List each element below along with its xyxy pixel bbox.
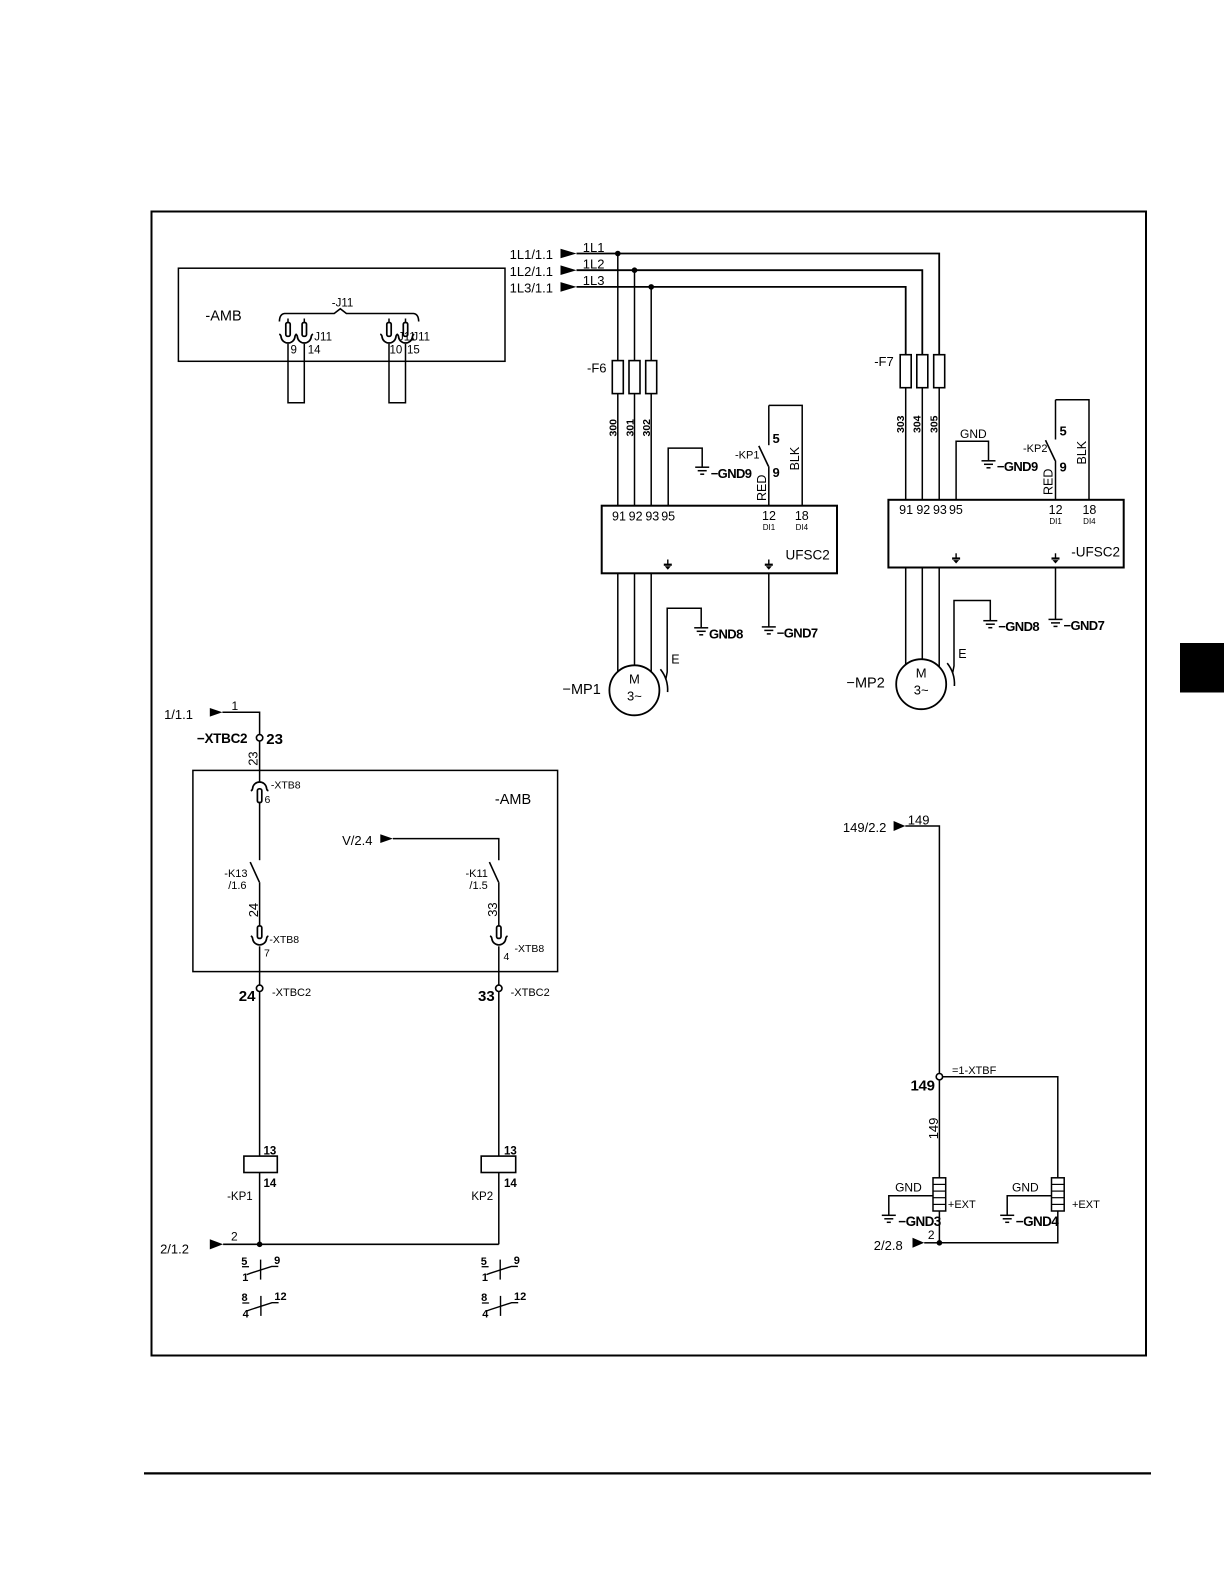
svg-text:E: E [671,653,679,667]
svg-text:-XTB8: -XTB8 [269,934,299,946]
svg-text:-KP1: -KP1 [227,1191,253,1203]
svg-text:13: 13 [264,1146,277,1158]
svg-text:RED: RED [755,475,769,501]
ground -GND7 (right) [1049,618,1063,620]
terminal -XTB8 6 [251,782,269,791]
wire pin95 to GND9 (U1) [668,448,702,506]
svg-text:M: M [629,672,640,687]
wire V to MP2 [921,568,923,662]
wire 149 to GND3 block [938,1080,940,1178]
fuse F7 pole 1 [900,355,911,388]
page marker tab [1180,643,1224,693]
motor MP1 [609,665,659,715]
terminal block +EXT (GND3) [933,1178,946,1211]
wire 301 [634,394,636,506]
contact -KP1 [768,405,770,445]
coil KP2 [481,1156,516,1172]
svg-text:GND: GND [1012,1181,1039,1195]
svg-text:5: 5 [1060,423,1067,438]
svg-text:303: 303 [895,415,907,433]
svg-text:4: 4 [504,951,510,963]
svg-text:J11: J11 [412,332,430,344]
svg-text:6: 6 [265,794,271,806]
svg-text:-K13: -K13 [224,868,247,880]
svg-text:−GND9: −GND9 [711,466,752,481]
enclosure box -AMB (top) [178,268,505,361]
wire U to MP1 [617,573,619,673]
svg-text:-K11: -K11 [466,868,488,880]
svg-text:305: 305 [928,415,940,433]
ground -GND9 (right) [982,460,996,462]
wire pin95 to GND9 (U2) [956,441,988,500]
internal earth arrow (U2 left) [955,553,957,558]
svg-text:304: 304 [912,415,924,433]
svg-text:12: 12 [1049,503,1063,517]
wire 1L2 [577,270,923,355]
svg-text:-UFSC2: -UFSC2 [1071,545,1120,560]
wire GND3 block to rail [938,1211,940,1243]
svg-text:7: 7 [264,948,270,960]
terminal -XTB8 7 [257,926,261,939]
svg-text:J11: J11 [314,332,332,344]
svg-text:1L3: 1L3 [583,273,605,288]
svg-text:1L2/1.1: 1L2/1.1 [510,264,553,279]
wire 23 [259,741,261,782]
wire 1L1 [577,254,940,355]
svg-text:18: 18 [795,509,809,523]
wire 1L3 to F6 [650,287,652,361]
svg-text:1/1.1: 1/1.1 [164,707,193,722]
node rail2-KP1 [257,1242,263,1248]
ground GND8 (left) [694,627,708,629]
wire 33 to coil KP2 [498,992,500,1157]
svg-text:−MP2: −MP2 [847,676,885,692]
node 1L2-301 [632,267,638,273]
svg-text:+EXT: +EXT [948,1199,976,1211]
svg-text:DI4: DI4 [796,523,809,532]
wire XTB8-4 to XTBC2-33 [498,946,500,985]
svg-text:-XTB8: -XTB8 [271,780,301,792]
wire pin12 to GND7 (right) [1055,568,1057,620]
rail 2 (left) [223,1243,499,1245]
svg-text:/1.6: /1.6 [228,880,246,892]
svg-text:DI1: DI1 [763,523,776,532]
svg-text:-J11: -J11 [332,298,354,310]
svg-text:302: 302 [641,419,653,437]
svg-text:GND: GND [960,427,987,441]
rail 2 (right) [924,1242,939,1244]
svg-text:UFSC2: UFSC2 [786,548,830,563]
ground -GND4 [1000,1214,1014,1216]
svg-text:149: 149 [926,1118,941,1140]
svg-text:E: E [958,647,966,661]
svg-text:18: 18 [1082,503,1096,517]
wire E to GND8 (right) [953,601,991,673]
svg-text:23: 23 [246,751,261,765]
svg-text:-XTBC2: -XTBC2 [272,987,311,999]
svg-text:14: 14 [308,344,321,356]
footer rule line [144,1472,1151,1474]
svg-text:12: 12 [274,1291,286,1303]
svg-text:M: M [916,666,927,681]
ground -GND9 (left) [695,466,709,468]
svg-text:23: 23 [266,731,283,748]
wire V to K11 [393,839,499,861]
internal earth arrow (U1 right) [768,560,770,565]
connector J11 pin 10 [388,319,390,323]
svg-text:+EXT: +EXT [1072,1199,1100,1211]
earth arc MP2 [947,663,954,686]
svg-text:9: 9 [773,465,780,480]
svg-text:95: 95 [661,509,675,523]
terminal =1-XTBF 149 [936,1074,942,1080]
svg-text:2/1.2: 2/1.2 [160,1241,189,1256]
wire 300 [617,394,619,506]
wire pin12 to GND7 (left) [768,573,770,626]
drawing border frame [152,212,1147,1356]
ground -GND7 (left) [762,626,776,628]
wire W to MP1 [650,573,652,673]
svg-text:−GND7: −GND7 [1064,618,1105,633]
svg-text:−MP1: −MP1 [563,682,601,698]
svg-text:5: 5 [481,1256,487,1268]
wire 302 [650,394,652,506]
svg-text:12: 12 [514,1291,526,1303]
controller U1 box UFSC2 [602,506,837,574]
internal earth arrow (U2 right) [1055,553,1057,558]
enclosure box -AMB (middle) [193,770,558,971]
svg-text:12: 12 [762,509,776,523]
internal earth arrow (U1 left) [667,560,669,565]
contact -K11 [489,862,498,882]
svg-text:1L1/1.1: 1L1/1.1 [510,247,553,262]
svg-text:V/2.4: V/2.4 [342,833,372,848]
wire 1L2 to F6 [634,270,636,360]
fuse F6 pole 1 [612,361,623,394]
svg-text:−GND8: −GND8 [998,619,1039,634]
svg-text:2: 2 [928,1228,935,1242]
coil -KP1 [244,1156,277,1172]
controller U2 box -UFSC2 [888,500,1123,568]
motor MP2 [896,659,946,709]
svg-text:149: 149 [911,1077,935,1094]
wire coil KP2 to rail 2 [498,1173,500,1245]
svg-text:2/2.8: 2/2.8 [874,1238,903,1253]
svg-text:-XTBC2: -XTBC2 [511,987,550,999]
svg-text:−XTBC2: −XTBC2 [197,731,247,746]
wire GND3 stub [889,1196,933,1215]
wire 1L3 [577,287,906,355]
wire GND4 stub [1007,1196,1051,1215]
svg-text:GND8: GND8 [709,626,743,641]
wire KP1 top to BLK [769,405,802,505]
svg-text:24: 24 [246,903,261,917]
svg-text:RED: RED [1042,469,1056,495]
svg-text:-AMB: -AMB [495,792,531,808]
wire XTB8-6 to K13 [259,803,261,861]
wire V to MP1 [634,573,636,667]
wire KP2 top to BLK [1056,400,1090,500]
svg-text:3~: 3~ [627,689,642,704]
svg-text:DI1: DI1 [1049,517,1062,526]
wire U to MP2 [905,568,907,668]
svg-text:BLK: BLK [1075,440,1089,464]
fuse F6 pole 2 [629,361,640,394]
terminal -XTBC2 24 [256,985,262,991]
svg-text:1: 1 [232,699,239,713]
wire 149 feed [905,826,939,1074]
svg-text:91: 91 [899,503,913,517]
wire 33 (inside AMB) [498,882,500,926]
svg-text:8: 8 [481,1292,487,1304]
svg-text:9: 9 [514,1255,520,1267]
svg-text:=1-XTBF: =1-XTBF [952,1065,997,1077]
svg-text:91: 91 [612,509,626,523]
terminal -XTB8 4 [497,926,501,939]
svg-text:-AMB: -AMB [205,309,241,325]
svg-text:−GND4: −GND4 [1016,1214,1059,1229]
svg-text:15: 15 [407,344,420,356]
terminal block +EXT (GND4) [1052,1178,1065,1211]
svg-text:95: 95 [949,503,963,517]
wire loop J11 9-14 [288,344,304,403]
svg-text:1L3/1.1: 1L3/1.1 [510,280,553,295]
wire 1L1 to F6 [617,254,619,361]
svg-text:8: 8 [242,1292,248,1304]
wire 1 to XTBC2-23 [222,712,259,734]
terminal -XTBC2 33 [496,985,502,991]
svg-text:33: 33 [485,902,500,916]
wire RED KP2 to pin12 [1055,461,1057,500]
wire GND4 block to rail [939,1211,1057,1243]
svg-text:GND: GND [895,1181,922,1195]
svg-text:BLK: BLK [788,446,802,470]
svg-text:10: 10 [390,344,403,356]
fuse F7 pole 2 [917,355,928,388]
svg-text:DI4: DI4 [1083,517,1096,526]
svg-text:33: 33 [478,988,495,1005]
terminal -XTBC2 23 [256,735,262,741]
contact -K13 [250,862,259,882]
svg-text:149/2.2: 149/2.2 [843,820,886,835]
svg-text:−GND9: −GND9 [997,459,1038,474]
svg-text:-KP2: -KP2 [1023,443,1047,455]
svg-text:93: 93 [933,503,947,517]
node 1L1-300 [615,251,621,257]
svg-text:KP2: KP2 [471,1191,493,1203]
svg-text:−GND7: −GND7 [777,625,818,640]
wire 24 to coil KP1 [259,992,261,1157]
fuse F6 pole 3 [646,361,657,394]
svg-text:-XTB8: -XTB8 [515,943,545,955]
fuse F7 pole 3 [934,355,945,388]
svg-text:2: 2 [231,1230,238,1244]
svg-text:/1.5: /1.5 [469,880,487,892]
svg-text:-F7: -F7 [874,354,894,369]
connector J11 pin 15 [405,319,407,323]
wire 304 [921,388,923,500]
wire 303 [905,388,907,500]
wire XTBF to GND4 branch [943,1077,1058,1178]
wire coil KP1 to rail 2 [259,1173,261,1245]
svg-text:92: 92 [629,509,643,523]
wire W to MP2 [938,568,940,668]
svg-text:24: 24 [239,988,256,1005]
ground -GND3 [882,1214,896,1216]
connector J11 pin 14 [303,319,305,323]
wire E to GND8 (left) [666,608,701,679]
contact -KP2 [1055,400,1057,440]
node rail2-GND3 [937,1240,943,1246]
svg-text:13: 13 [504,1146,517,1158]
wire 305 [938,388,940,500]
earth arc MP1 [660,669,667,692]
node 1L3-302 [648,284,654,290]
svg-text:14: 14 [504,1178,517,1190]
wire 24 (inside AMB) [259,882,261,926]
svg-text:92: 92 [916,503,930,517]
svg-text:9: 9 [274,1255,280,1267]
svg-text:9: 9 [291,344,297,356]
svg-text:301: 301 [624,419,636,437]
svg-text:9: 9 [1060,460,1067,475]
svg-text:5: 5 [241,1256,247,1268]
svg-text:−GND3: −GND3 [898,1214,941,1229]
svg-text:5: 5 [773,431,780,446]
svg-text:300: 300 [608,419,620,437]
wire RED KP1 to pin12 [768,466,770,505]
ground -GND8 (right) [983,620,997,622]
wire loop J11 10-15 [389,344,406,403]
svg-text:-KP1: -KP1 [735,449,759,461]
svg-text:14: 14 [264,1178,277,1190]
brace -J11 [279,309,418,322]
svg-text:3~: 3~ [914,683,929,698]
wire XTB8-7 to XTBC2-24 [259,946,261,985]
connector J11 pin 9 [287,319,289,323]
svg-text:-F6: -F6 [587,361,607,376]
svg-text:93: 93 [645,509,659,523]
